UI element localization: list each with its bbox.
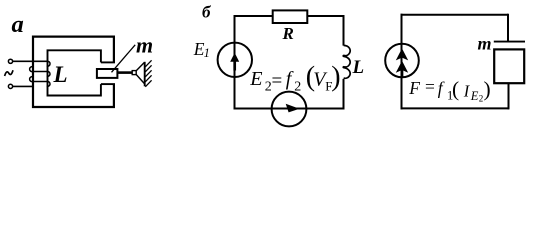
wire lower terminal to coil bbox=[13, 85, 34, 87]
svg-text:=: = bbox=[272, 71, 283, 92]
terminal lower bbox=[8, 84, 12, 88]
double arrow head 1 bbox=[396, 48, 408, 60]
wire right upper stub bbox=[507, 14, 509, 42]
E2 arrow head bbox=[286, 104, 300, 113]
mount cone lower edge bbox=[136, 75, 144, 84]
wire upper terminal to coil bbox=[13, 60, 47, 62]
current source circle bbox=[385, 44, 419, 78]
mass element: top plate bbox=[494, 41, 525, 43]
core inner rectangle bbox=[48, 50, 101, 95]
svg-text:m: m bbox=[478, 34, 492, 54]
resistor R box bbox=[273, 10, 308, 23]
E1 arrow head bbox=[230, 53, 239, 62]
EMF source E1 circle bbox=[218, 43, 252, 77]
core outer rectangle (C-shaped, slot on right) bbox=[33, 37, 114, 107]
wire left bbox=[234, 15, 236, 109]
spring mount square bbox=[132, 71, 136, 75]
svg-text:1: 1 bbox=[204, 46, 210, 60]
wire bottom bbox=[234, 108, 345, 110]
svg-text:E: E bbox=[249, 68, 262, 90]
svg-text:(: ( bbox=[452, 77, 459, 101]
svg-text:L: L bbox=[53, 62, 68, 87]
rod from plunger to spring mount bbox=[118, 71, 133, 74]
svg-text:F: F bbox=[408, 78, 420, 98]
wire bottom bbox=[401, 107, 510, 109]
label E2 = f2(VF) bbox=[249, 61, 340, 94]
svg-text:R: R bbox=[282, 24, 294, 43]
svg-text:E: E bbox=[470, 89, 479, 103]
inductor L (right side squiggle) bbox=[343, 45, 350, 78]
wire top-right bbox=[307, 15, 344, 17]
wire right upper bbox=[343, 15, 345, 46]
coil winding on left limb bbox=[30, 61, 50, 86]
wire right lower stub bbox=[508, 83, 510, 109]
arrow tail thick bbox=[401, 69, 404, 77]
wire top-left bbox=[234, 15, 273, 17]
wire top bbox=[401, 14, 509, 16]
svg-text:): ) bbox=[484, 77, 491, 101]
double arrow head 2 bbox=[396, 61, 408, 73]
svg-text:m: m bbox=[136, 33, 153, 58]
svg-text:L: L bbox=[352, 57, 365, 78]
fixed wall bbox=[144, 62, 146, 87]
E1 arrow tail bbox=[233, 62, 236, 71]
svg-text:2: 2 bbox=[294, 79, 301, 94]
mass element: box bbox=[494, 49, 524, 83]
wire left bbox=[401, 14, 403, 110]
mount cone upper edge bbox=[136, 63, 144, 71]
pointer line from label m to plunger bbox=[112, 45, 136, 73]
controlled source E2 circle (bottom) bbox=[272, 92, 307, 127]
label F = f1(IE2) bbox=[408, 77, 490, 104]
svg-text:): ) bbox=[331, 61, 340, 92]
core slot top edge bbox=[101, 61, 115, 63]
wall hatching bbox=[145, 60, 151, 87]
svg-text:=: = bbox=[425, 77, 435, 97]
core slot bottom edge bbox=[101, 83, 115, 85]
AC source tilde bbox=[5, 70, 13, 76]
wire right lower bbox=[343, 79, 345, 110]
svg-text:а: а bbox=[12, 11, 24, 38]
armature (moving plunger) bbox=[97, 69, 118, 78]
terminal upper bbox=[8, 59, 12, 63]
